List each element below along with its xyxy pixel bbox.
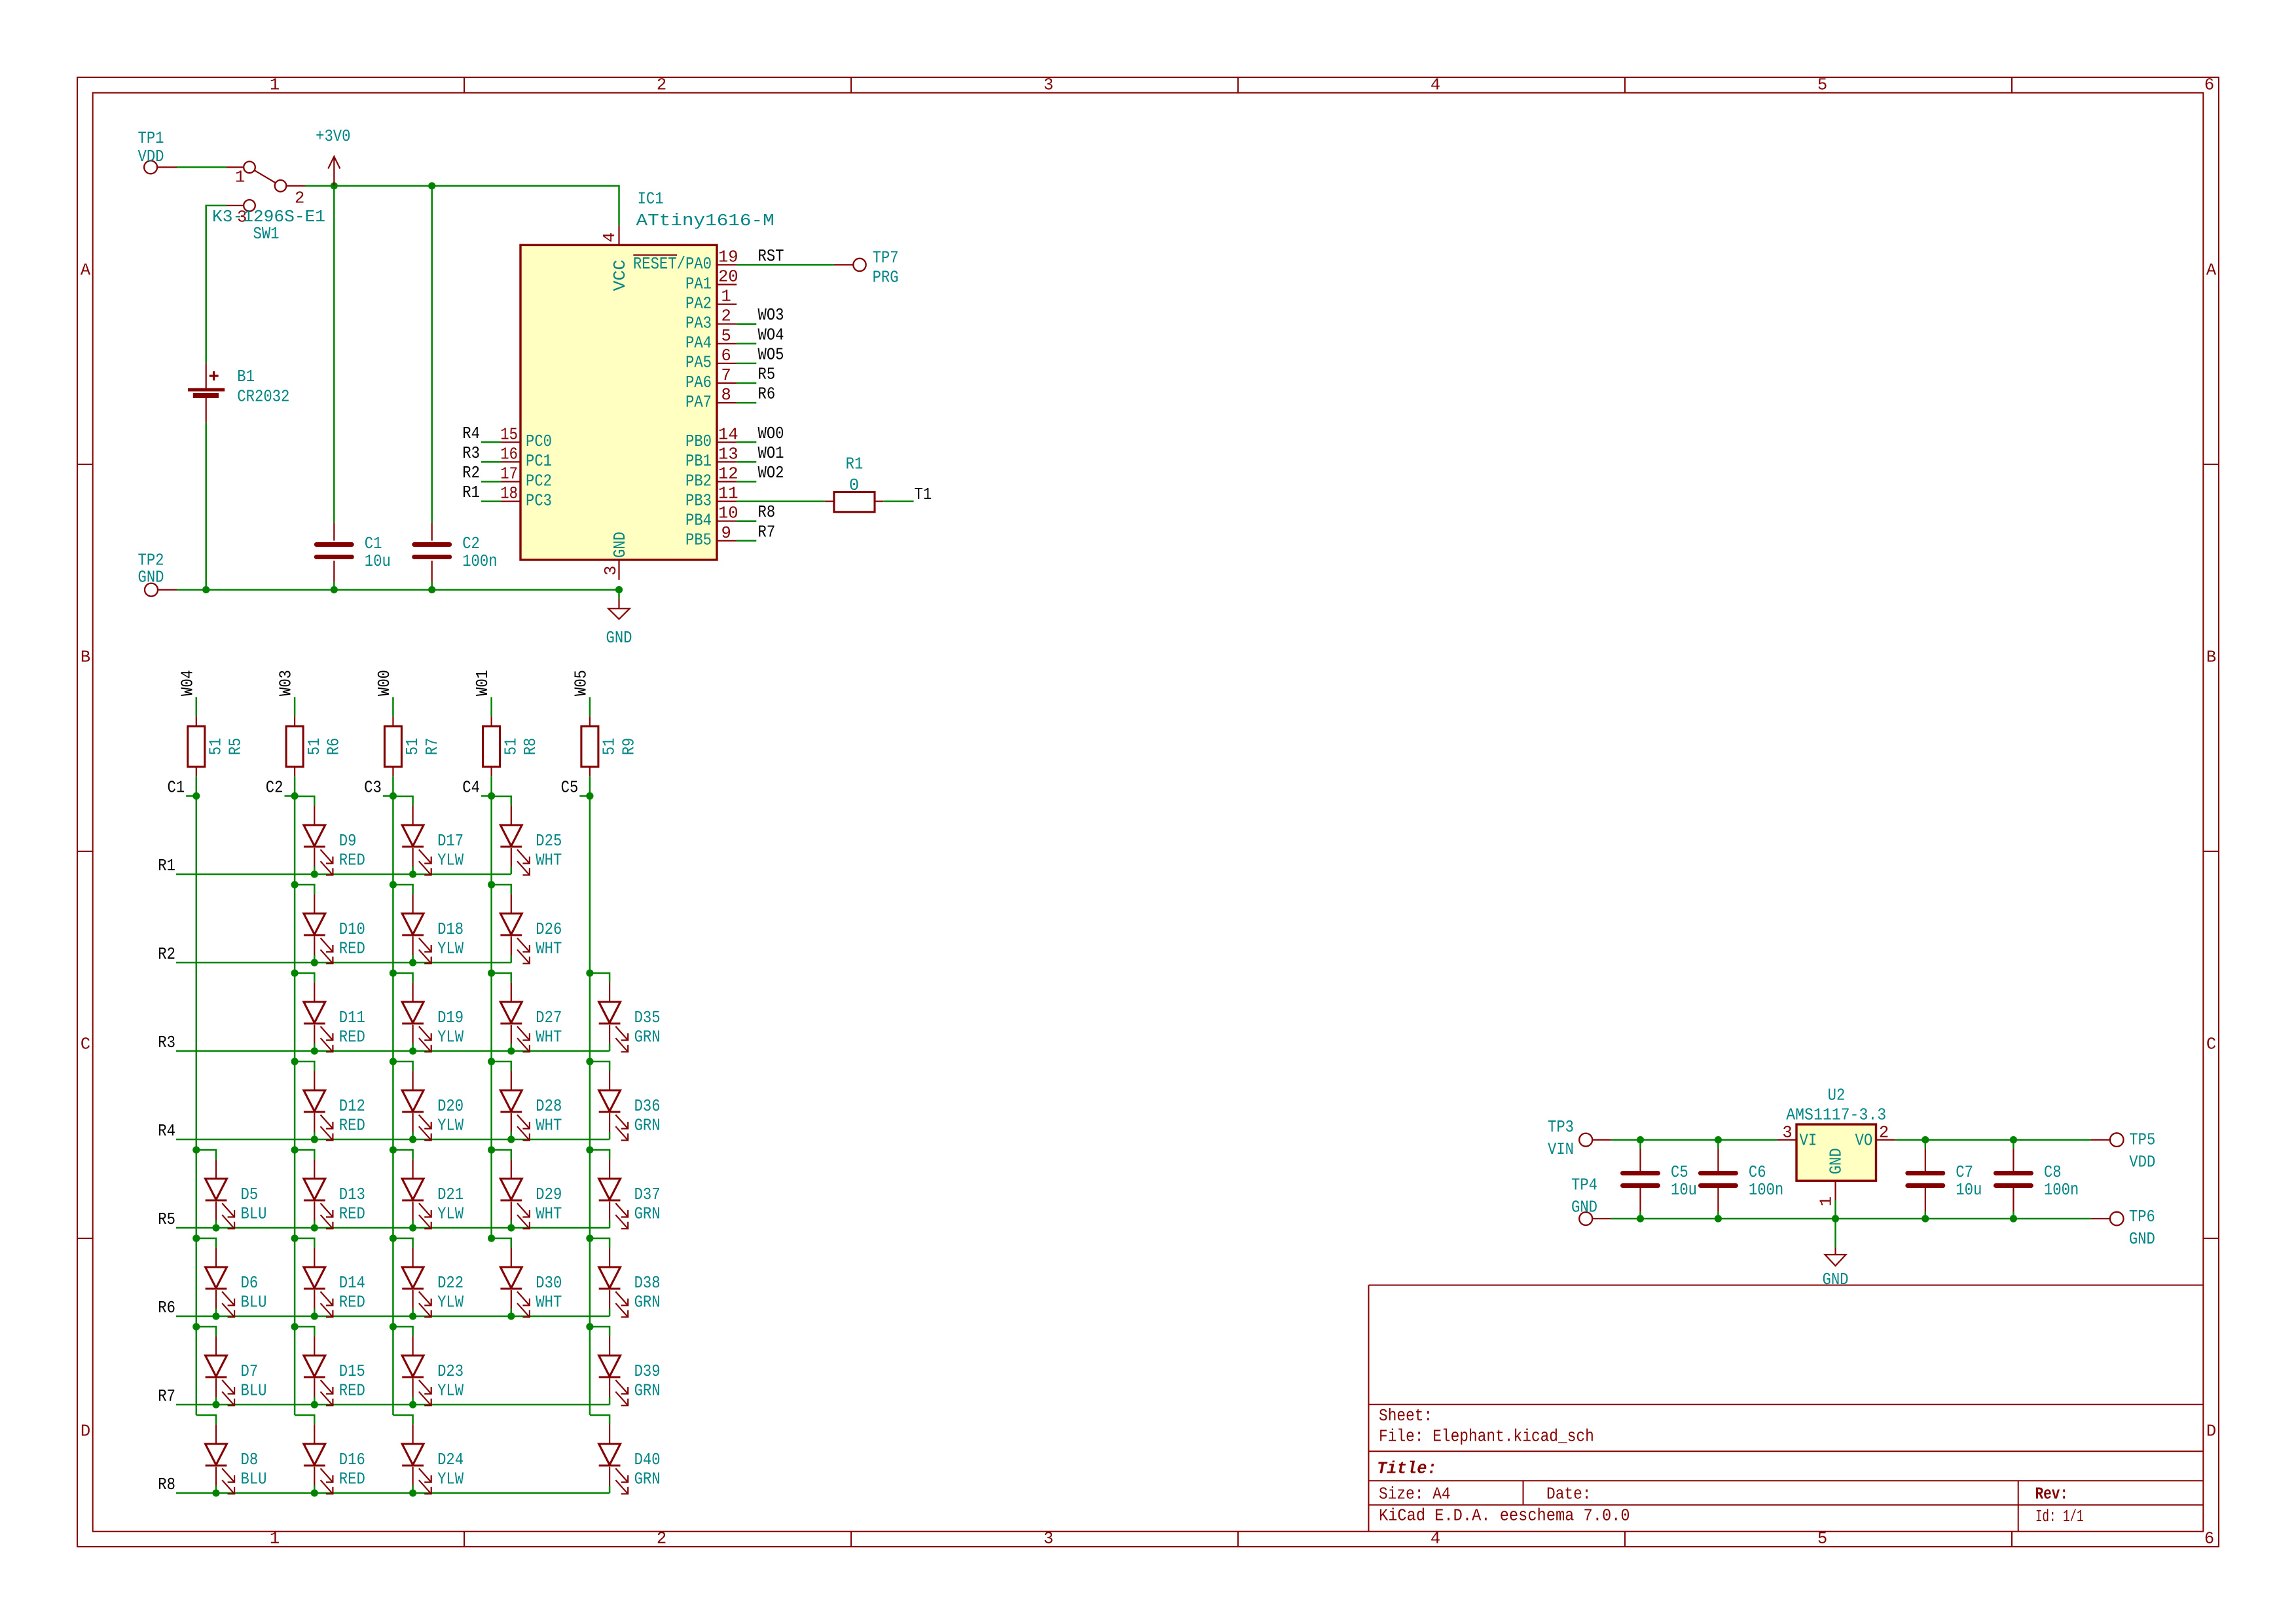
svg-text:D12: D12 (339, 1097, 365, 1116)
wire +3V0 rail to IC1 VCC (334, 186, 619, 225)
wire branch to D30 (492, 1238, 511, 1247)
svg-text:D25: D25 (536, 832, 562, 851)
junction D20 cathode on row R4 (409, 1135, 416, 1143)
wire branch to D11 (295, 973, 314, 982)
svg-text:1: 1 (721, 287, 731, 306)
wire branch to D38 (590, 1238, 610, 1247)
LED D12 (RED) (304, 1071, 365, 1140)
capacitor C2 (100n) (414, 523, 498, 582)
IC1 pin 5 (PA4) (685, 327, 737, 353)
svg-text:B1: B1 (237, 367, 255, 386)
svg-text:19: 19 (718, 248, 738, 267)
svg-text:RED: RED (339, 1293, 365, 1312)
svg-text:C: C (2206, 1035, 2216, 1054)
svg-text:D24: D24 (437, 1450, 464, 1469)
wire stub pin 2 (737, 323, 756, 325)
LED D7 (BLU) (206, 1336, 267, 1405)
svg-text:CR2032: CR2032 (237, 387, 289, 406)
LED D15 (RED) (304, 1336, 365, 1405)
IC1 pin 2 (PA3) (685, 307, 737, 333)
svg-text:BLU: BLU (241, 1205, 267, 1224)
svg-text:GRN: GRN (634, 1028, 661, 1047)
svg-text:W03: W03 (277, 670, 296, 696)
junction GND rail / C2 (428, 586, 435, 593)
svg-text:BLU: BLU (241, 1382, 267, 1401)
svg-text:D: D (81, 1422, 90, 1441)
svg-text:PC0: PC0 (526, 432, 552, 451)
svg-text:YLW: YLW (437, 1205, 464, 1224)
IC1 pin 3 (GND) (602, 560, 621, 580)
junction D11 cathode on row R3 (311, 1047, 318, 1054)
junction D22 cathode on row R6 (409, 1312, 416, 1319)
svg-text:4: 4 (1430, 76, 1440, 95)
junction tap for D36 (586, 1058, 593, 1065)
svg-text:2: 2 (657, 76, 666, 95)
svg-text:YLW: YLW (437, 851, 464, 870)
svg-text:TP2: TP2 (138, 551, 164, 570)
junction D6 cathode on row R6 (212, 1312, 219, 1319)
wire column C3 vertical (392, 796, 394, 1416)
junction at +3V0 / C1 column (331, 182, 338, 189)
wire branch to D37 (590, 1150, 610, 1159)
svg-text:GND: GND (2129, 1230, 2155, 1249)
svg-text:K3-1296S-E1: K3-1296S-E1 (212, 208, 325, 227)
svg-text:RESET/PA0: RESET/PA0 (633, 255, 712, 274)
LED D19 (YLW) (402, 982, 464, 1052)
svg-text:TP4: TP4 (1571, 1175, 1597, 1194)
wire C6 to GND rail (1717, 1211, 1719, 1219)
wire U2 GND to GND rail (1834, 1200, 1836, 1219)
svg-text:C1: C1 (168, 779, 185, 798)
svg-text:D27: D27 (536, 1008, 562, 1027)
svg-text:T1: T1 (915, 485, 932, 504)
svg-text:R5: R5 (226, 738, 245, 756)
LED D18 (YLW) (402, 894, 464, 963)
junction tap for D37 (586, 1146, 593, 1153)
svg-text:PA2: PA2 (685, 294, 712, 313)
wire R6 to C2 node (294, 776, 296, 796)
svg-text:R7: R7 (158, 1387, 175, 1406)
svg-text:4: 4 (1430, 1530, 1440, 1549)
wire branch to D15 (295, 1327, 314, 1336)
svg-text:R7: R7 (423, 738, 442, 756)
svg-text:D15: D15 (339, 1362, 365, 1381)
svg-text:R2: R2 (158, 945, 175, 964)
svg-text:Size: A4: Size: A4 (1379, 1485, 1451, 1504)
svg-text:VIN: VIN (1548, 1140, 1574, 1159)
svg-text:RED: RED (339, 940, 365, 959)
capacitor C1 (10u) (316, 523, 391, 582)
resistor R1 (0 ohm) (825, 455, 883, 512)
IC1 pin 7 (PA6) (685, 366, 737, 392)
svg-text:WO1: WO1 (758, 444, 784, 463)
svg-text:5: 5 (1817, 76, 1827, 95)
wire VIN/VDD to C8 (2013, 1140, 2014, 1149)
junction D10 cathode on row R2 (311, 959, 318, 966)
svg-text:R8: R8 (758, 503, 776, 522)
svg-text:D16: D16 (339, 1450, 365, 1469)
LED D23 (YLW) (402, 1336, 464, 1405)
wire branch to D23 (393, 1327, 412, 1336)
junction tap for D39 (586, 1323, 593, 1330)
junction C5 label node (586, 792, 593, 800)
svg-text:4: 4 (600, 232, 619, 242)
svg-text:C4: C4 (462, 779, 480, 798)
svg-text:PA6: PA6 (685, 373, 712, 392)
svg-text:TP6: TP6 (2129, 1208, 2155, 1227)
wire row R8 (176, 1492, 610, 1494)
IC1 pin 14 (PB0) (685, 425, 738, 451)
LED D27 (WHT) (500, 982, 562, 1052)
svg-text:D19: D19 (437, 1008, 464, 1027)
wire C5 to GND rail (1639, 1211, 1641, 1219)
capacitor C8 (100n) (1995, 1149, 2079, 1212)
wire branch to D9 (295, 796, 314, 805)
svg-text:15: 15 (500, 425, 518, 444)
junction tap for D28 (488, 1058, 495, 1065)
svg-text:2: 2 (657, 1530, 666, 1549)
LED D21 (YLW) (402, 1159, 464, 1228)
junction +3V0 rail / C2 (428, 182, 435, 189)
svg-text:Date:: Date: (1546, 1485, 1592, 1504)
wire column C1 vertical (196, 796, 198, 1416)
wire R5 to C1 node (196, 776, 198, 796)
svg-text:YLW: YLW (437, 1382, 464, 1401)
wire stub pin 8 (737, 402, 756, 404)
svg-text:VO: VO (1855, 1131, 1873, 1150)
test point TP3 (1548, 1118, 1611, 1159)
junction VDD / C8 (2010, 1136, 2017, 1143)
wire stub pin 5 (737, 343, 756, 345)
IC1 pin 11 (PB3) (685, 485, 738, 511)
svg-text:100n: 100n (1749, 1181, 1783, 1200)
svg-text:WHT: WHT (536, 1293, 562, 1312)
svg-text:D13: D13 (339, 1185, 365, 1204)
wire branch to D10 (295, 885, 314, 894)
junction tap for D35 (586, 969, 593, 976)
svg-text:D6: D6 (241, 1274, 259, 1293)
svg-text:C2: C2 (266, 779, 283, 798)
wire branch to D20 (393, 1061, 412, 1071)
IC1 pin 1 (PA2) (685, 287, 737, 314)
IC1 pin 16 (PC1) (500, 445, 552, 471)
svg-text:100n: 100n (2044, 1181, 2079, 1200)
svg-text:51: 51 (305, 738, 324, 756)
junction D17 cathode on row R1 (409, 870, 416, 877)
capacitor C6 (100n) (1700, 1149, 1783, 1212)
junction D24 cathode on row R8 (409, 1489, 416, 1496)
junction GND rail / battery (202, 586, 210, 593)
svg-text:R6: R6 (158, 1299, 175, 1318)
wire row R1 (176, 874, 511, 876)
junction D19 cathode on row R3 (409, 1047, 416, 1054)
svg-text:BLU: BLU (241, 1470, 267, 1489)
svg-text:8: 8 (721, 386, 731, 405)
power symbol +3V0 (316, 127, 350, 186)
wire W05 to R9 (589, 697, 591, 717)
svg-text:20: 20 (718, 268, 738, 287)
wire branch to D36 (590, 1061, 610, 1071)
wire row R7 (176, 1404, 610, 1406)
svg-text:SW1: SW1 (253, 225, 280, 244)
IC1 pin 20 (PA1) (685, 268, 738, 294)
svg-text:1: 1 (1817, 1196, 1836, 1206)
svg-text:51: 51 (501, 738, 520, 756)
wire branch to D12 (295, 1061, 314, 1071)
LED D5 (BLU) (206, 1159, 267, 1228)
svg-text:R2: R2 (462, 464, 480, 483)
junction D27 cathode on row R3 (507, 1047, 515, 1054)
svg-text:PB4: PB4 (685, 511, 712, 530)
svg-text:R1: R1 (158, 857, 175, 876)
svg-text:Id: 1/1: Id: 1/1 (2035, 1507, 2084, 1526)
svg-text:File: Elephant.kicad_sch: File: Elephant.kicad_sch (1379, 1428, 1594, 1447)
svg-text:D5: D5 (241, 1185, 259, 1204)
svg-text:2: 2 (721, 307, 731, 326)
wire row R4 (176, 1139, 610, 1141)
svg-text:WO5: WO5 (758, 345, 784, 364)
svg-text:PB5: PB5 (685, 531, 712, 550)
IC1 pin 12 (PB2) (685, 465, 738, 491)
svg-text:D14: D14 (339, 1274, 365, 1293)
LED D13 (RED) (304, 1159, 365, 1228)
svg-text:C1: C1 (365, 534, 382, 553)
svg-text:3: 3 (1044, 1530, 1053, 1549)
wire stub pin 7 (737, 382, 756, 384)
svg-text:D36: D36 (634, 1097, 661, 1116)
LED D9 (RED) (304, 805, 365, 875)
LED D6 (BLU) (206, 1247, 267, 1317)
junction D14 cathode on row R6 (311, 1312, 318, 1319)
junction tap for D38 (586, 1234, 593, 1242)
wire stub pin 6 (737, 363, 756, 365)
junction C8 / GND rail (2010, 1215, 2017, 1222)
junction tap for D29 (488, 1146, 495, 1153)
svg-text:GND: GND (1823, 1270, 1849, 1289)
svg-text:+3V0: +3V0 (316, 127, 350, 146)
wire VIN/VDD to C6 (1717, 1140, 1719, 1149)
test point TP6 (2091, 1208, 2155, 1249)
svg-text:C: C (81, 1035, 90, 1054)
IC1 pin 8 (PA7) (685, 386, 737, 412)
svg-text:C5: C5 (1671, 1163, 1688, 1182)
svg-text:PA3: PA3 (685, 314, 712, 333)
LED D39 (GRN) (599, 1336, 661, 1405)
wire SW1 pin2 to +3V0 junction (286, 185, 305, 187)
junction VIN / C6 (1715, 1136, 1722, 1143)
resistor R7 (51) (384, 716, 442, 776)
junction tap for D5 (192, 1146, 200, 1153)
wire branch to D35 (590, 973, 610, 982)
svg-text:7: 7 (721, 366, 731, 385)
resistor R8 (51) (483, 716, 541, 776)
junction tap for D21 (390, 1146, 397, 1153)
svg-text:D29: D29 (536, 1185, 562, 1204)
svg-text:D38: D38 (634, 1274, 661, 1293)
svg-text:D20: D20 (437, 1097, 464, 1116)
svg-text:D39: D39 (634, 1362, 661, 1381)
svg-text:WHT: WHT (536, 1116, 562, 1135)
svg-text:BLU: BLU (241, 1293, 267, 1312)
net label C3 (364, 779, 393, 798)
svg-text:5: 5 (721, 327, 731, 346)
junction D5 cathode on row R5 (212, 1224, 219, 1231)
svg-text:YLW: YLW (437, 940, 464, 959)
junction D16 cathode on row R8 (311, 1489, 318, 1496)
svg-text:VDD: VDD (2129, 1153, 2155, 1172)
wire branch to D22 (393, 1238, 412, 1247)
wire branch to D14 (295, 1238, 314, 1247)
svg-text:1: 1 (270, 76, 280, 95)
wire stub pin 14 (737, 441, 756, 443)
svg-text:12: 12 (718, 465, 738, 484)
svg-text:PA1: PA1 (685, 274, 712, 293)
svg-text:RED: RED (339, 1382, 365, 1401)
svg-text:TP1: TP1 (138, 129, 164, 148)
wire +3V0 to C2 (431, 186, 433, 523)
svg-text:W05: W05 (572, 670, 591, 696)
wire branch to D25 (492, 796, 511, 805)
wire branch to D18 (393, 885, 412, 894)
svg-text:16: 16 (500, 445, 518, 464)
wire branch to D26 (492, 885, 511, 894)
junction C2 label node (291, 792, 299, 800)
svg-text:RST: RST (758, 247, 784, 266)
svg-text:GRN: GRN (634, 1293, 661, 1312)
svg-text:A: A (81, 261, 91, 280)
IC IC1 ATtiny1616-M body (520, 190, 774, 560)
wire TP1 to SW1 pin 1 (177, 166, 227, 168)
net label C4 (462, 779, 491, 798)
svg-text:WO0: WO0 (758, 424, 784, 443)
svg-text:PB3: PB3 (685, 491, 712, 510)
svg-text:51: 51 (403, 738, 422, 756)
wire C1 to GND rail (333, 582, 335, 590)
wire +3V0 to C1 (333, 186, 335, 523)
svg-text:KiCad E.D.A. eeschema 7.0.0: KiCad E.D.A. eeschema 7.0.0 (1379, 1507, 1630, 1526)
svg-text:WO2: WO2 (758, 464, 784, 483)
junction tap for D15 (291, 1323, 299, 1330)
LED D20 (YLW) (402, 1071, 464, 1140)
U2 pin 2 (VO) (1876, 1123, 1895, 1142)
LED D16 (RED) (304, 1424, 365, 1494)
wire R1 to T1 (883, 500, 913, 502)
junction C7 / GND rail (1922, 1215, 1929, 1222)
svg-text:10u: 10u (365, 552, 391, 571)
svg-text:51: 51 (600, 738, 619, 756)
svg-text:ATtiny1616-M: ATtiny1616-M (636, 212, 774, 231)
svg-text:D35: D35 (634, 1008, 661, 1027)
svg-text:14: 14 (718, 425, 738, 444)
junction C1 label node (192, 792, 200, 800)
svg-text:D23: D23 (437, 1362, 464, 1381)
wire VIN/VDD to C5 (1639, 1140, 1641, 1149)
wire VDD rail (1895, 1139, 2090, 1141)
net label C5 (561, 779, 590, 798)
wire branch to D21 (393, 1150, 412, 1159)
svg-text:R3: R3 (158, 1033, 175, 1052)
junction D21 cathode on row R5 (409, 1224, 416, 1231)
junction tap for D13 (291, 1146, 299, 1153)
junction GND rail / C1 (331, 586, 338, 593)
IC1 pin 9 (PB5) (685, 524, 737, 550)
svg-text:PC2: PC2 (526, 471, 552, 490)
U2 pin 3 (VI) (1777, 1123, 1796, 1142)
battery B1 (CR2032) (188, 363, 289, 423)
wire C2 to GND rail (431, 582, 433, 590)
LED D26 (WHT) (500, 894, 562, 963)
svg-text:D26: D26 (536, 920, 562, 939)
wire jog column C5 to D40 (590, 1415, 610, 1424)
svg-text:RED: RED (339, 1205, 365, 1224)
LED D40 (GRN) (599, 1424, 661, 1494)
svg-text:R6: R6 (758, 385, 776, 404)
wire branch to D29 (492, 1150, 511, 1159)
junction D28 cathode on row R4 (507, 1135, 515, 1143)
junction D7 cathode on row R7 (212, 1401, 219, 1408)
wire column C2 vertical (294, 796, 296, 1416)
LED D30 (WHT) (500, 1247, 562, 1317)
junction tap for D20 (390, 1058, 397, 1065)
svg-text:9: 9 (721, 524, 731, 543)
wire column C5 vertical (589, 796, 591, 1416)
IC1 pin 19 (RESET/PA0) (633, 248, 738, 274)
svg-text:10u: 10u (1671, 1181, 1697, 1200)
junction tap for D27 (488, 969, 495, 976)
test point TP2 (138, 551, 177, 597)
wire branch to D17 (393, 796, 412, 805)
capacitor C5 (10u) (1623, 1149, 1698, 1212)
IC1 pin 4 (VCC) (600, 225, 619, 245)
svg-text:D18: D18 (437, 920, 464, 939)
IC1 pin 13 (PB1) (685, 445, 738, 471)
svg-text:R4: R4 (462, 424, 480, 443)
wire battery to GND rail (205, 422, 207, 589)
svg-text:D30: D30 (536, 1274, 562, 1293)
wire W00 to R7 (392, 697, 394, 717)
svg-text:U2: U2 (1828, 1086, 1846, 1105)
wire stub pin 18 (481, 500, 501, 502)
svg-text:D11: D11 (339, 1008, 365, 1027)
wire stub pin 10 (737, 520, 756, 522)
junction D23 cathode on row R7 (409, 1401, 416, 1408)
IC1 pin 10 (PB4) (685, 504, 738, 530)
svg-text:D17: D17 (437, 832, 464, 851)
svg-text:YLW: YLW (437, 1470, 464, 1489)
wire row R2 (176, 962, 511, 964)
svg-text:B: B (81, 648, 90, 667)
svg-text:C2: C2 (462, 534, 480, 553)
IC1 pin 18 (PC3) (500, 485, 552, 511)
svg-text:5: 5 (1817, 1530, 1827, 1549)
svg-text:6: 6 (721, 346, 731, 365)
junction tap for D10 (291, 881, 299, 888)
wire branch to D28 (492, 1061, 511, 1071)
svg-text:18: 18 (500, 485, 518, 504)
svg-text:GRN: GRN (634, 1205, 661, 1224)
svg-text:R5: R5 (158, 1210, 175, 1229)
svg-text:VI: VI (1800, 1131, 1817, 1150)
junction tap for D22 (390, 1234, 397, 1242)
junction D15 cathode on row R7 (311, 1401, 318, 1408)
LED D29 (WHT) (500, 1159, 562, 1228)
svg-text:TP5: TP5 (2129, 1131, 2155, 1150)
svg-text:2: 2 (295, 189, 304, 208)
junction D29 cathode on row R5 (507, 1224, 515, 1231)
LED D10 (RED) (304, 894, 365, 963)
svg-text:D: D (2206, 1422, 2216, 1441)
LED D14 (RED) (304, 1247, 365, 1317)
